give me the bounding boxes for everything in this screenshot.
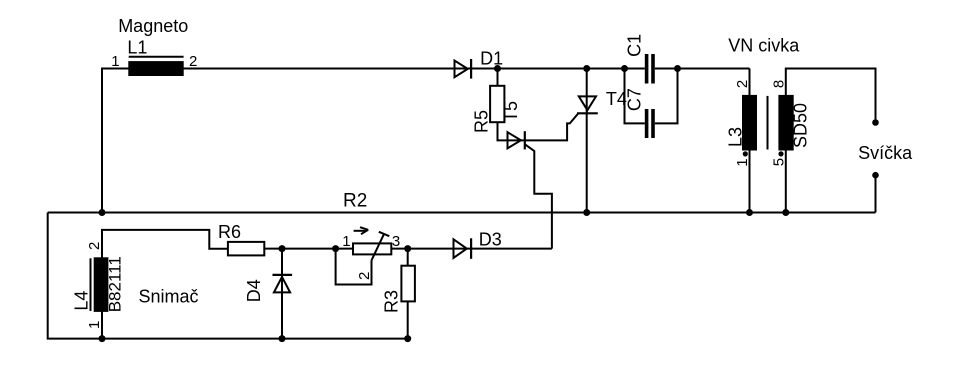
node SD50 bottom	[782, 209, 789, 216]
svg-text:L3: L3	[726, 127, 746, 147]
svg-text:1: 1	[86, 321, 103, 329]
svg-text:R6: R6	[218, 222, 241, 242]
spark gap electrode top	[872, 119, 879, 126]
wire L1 to D1	[183, 68, 471, 70]
wire SD50 bottom lead	[785, 150, 787, 213]
svg-text:2: 2	[86, 242, 103, 250]
svg-text:R5: R5	[471, 110, 491, 133]
node L4 bottom	[99, 335, 106, 342]
wire pot wiper loop	[336, 249, 372, 285]
svg-text:D3: D3	[479, 229, 502, 249]
wire spark plug bottom	[875, 175, 877, 212]
node pot pin1	[332, 245, 339, 252]
diode D4	[273, 249, 293, 339]
resistor R6	[228, 242, 264, 256]
svg-text:VN civka: VN civka	[728, 35, 800, 55]
node C1 right	[674, 65, 681, 72]
resistor R3	[401, 266, 415, 302]
inductor L1	[129, 57, 184, 75]
wire D3 to T5 gate riser	[471, 248, 552, 250]
thyristor T5	[508, 131, 525, 149]
diode D3	[454, 238, 472, 258]
capacitor C7	[647, 109, 653, 138]
svg-text:D1: D1	[480, 49, 503, 69]
wire pot to D3	[391, 248, 471, 250]
svg-text:C1: C1	[624, 34, 644, 57]
inductor L4	[91, 258, 108, 311]
transformer winding SD50	[779, 96, 792, 150]
wire C7 right rail	[655, 69, 678, 124]
svg-text:B82111: B82111	[106, 256, 125, 312]
wire T5 cathode to T4 gate	[525, 113, 579, 140]
node R3 top	[404, 245, 411, 252]
wire R5 top lead	[497, 69, 499, 86]
svg-text:1: 1	[734, 158, 751, 166]
spark gap electrode bottom	[872, 172, 879, 179]
resistor R5	[490, 86, 504, 122]
node at D1/R5 junction	[494, 65, 501, 72]
node T4 bottom	[583, 209, 590, 216]
node L3 bottom	[746, 209, 753, 216]
wire L4 bottom lead	[101, 311, 103, 339]
wire left loop	[48, 213, 408, 339]
svg-text:Svíčka: Svíčka	[858, 143, 913, 163]
wire T5 gate down	[525, 145, 552, 249]
svg-text:D4: D4	[244, 279, 264, 302]
wire L3 bottom lead	[749, 150, 751, 213]
svg-text:R2: R2	[343, 191, 367, 212]
svg-text:Magneto: Magneto	[118, 16, 188, 36]
svg-text:2: 2	[356, 272, 373, 280]
svg-text:8: 8	[770, 80, 787, 88]
thyristor T4	[577, 69, 598, 212]
polarity dot L3	[743, 151, 748, 156]
transformer winding L3	[743, 96, 756, 150]
svg-text:2: 2	[189, 53, 197, 70]
svg-text:1: 1	[342, 233, 350, 250]
wire bottom rail	[48, 212, 876, 214]
wire L4 top lead	[102, 230, 228, 258]
node C1 left	[621, 65, 628, 72]
wire R3 bottom lead	[407, 301, 409, 338]
svg-text:2: 2	[734, 80, 751, 88]
svg-text:SD50: SD50	[790, 103, 810, 148]
node D4 bottom	[279, 335, 286, 342]
potentiometer wiper arrow	[372, 232, 390, 260]
wire D1 to C1	[471, 68, 645, 70]
wire L3 top lead	[749, 69, 751, 96]
svg-text:Snimač: Snimač	[139, 287, 199, 307]
svg-text:L1: L1	[127, 37, 147, 57]
wire C7 left rail	[625, 69, 645, 124]
svg-text:R3: R3	[382, 290, 402, 313]
potentiometer adjust arrow	[354, 227, 369, 234]
wire R6 to pot	[264, 248, 353, 250]
node R3 bottom	[404, 335, 411, 342]
svg-text:1: 1	[111, 53, 119, 70]
capacitor C1	[647, 54, 653, 84]
svg-text:L4: L4	[71, 291, 91, 311]
potentiometer R2 body	[353, 243, 391, 254]
diode D1	[455, 59, 472, 79]
node R2/L1 junction	[99, 209, 106, 216]
svg-text:C7: C7	[624, 88, 644, 111]
svg-text:T5: T5	[501, 101, 521, 122]
wire R5 bottom lead to T5 anode	[498, 122, 525, 140]
wire top-left corner from L1 pin1 down to R2 rail	[102, 69, 130, 213]
svg-text:5: 5	[770, 158, 787, 166]
polarity dot SD50	[778, 151, 783, 156]
wire SD50 top lead to spark plug	[786, 69, 876, 123]
node T4 top	[583, 65, 590, 72]
wire C1 right to L3	[655, 68, 750, 70]
wire R3 top lead	[407, 249, 409, 266]
node D4 top	[279, 245, 286, 252]
svg-text:3: 3	[392, 233, 400, 250]
transformer core	[767, 96, 769, 150]
